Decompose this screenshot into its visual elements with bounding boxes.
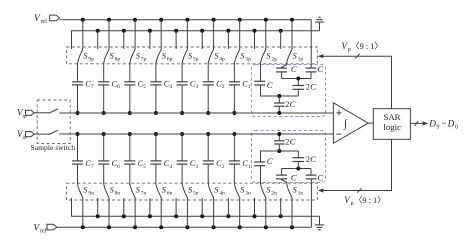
capacitor C3 (N array) (181, 164, 183, 184)
wire node A (N) (282, 168, 311, 170)
wire N top-plate rail (59, 133, 333, 135)
svg-text:Sample switch: Sample switch (31, 143, 76, 152)
svg-text:in: in (22, 135, 27, 141)
svg-text:3: 3 (196, 164, 199, 170)
svg-text:7n: 7n (141, 191, 147, 197)
switch S7p (122, 29, 126, 33)
svg-text:2n: 2n (271, 191, 277, 197)
svg-text:4: 4 (169, 164, 172, 170)
svg-text:3p: 3p (245, 56, 251, 62)
SAR logic block (373, 109, 410, 140)
svg-text:SAR: SAR (383, 112, 400, 122)
comparator U1 (333, 103, 368, 144)
wire Vref elbow to dummy cap N (310, 179, 312, 227)
sample switch box (dashed) (37, 100, 70, 144)
svg-text:2: 2 (222, 164, 225, 170)
wire P top-plate rail (59, 112, 333, 114)
capacitor 2C (N sub top) (278, 144, 280, 151)
svg-text:S: S (188, 186, 192, 195)
svg-text:S: S (240, 186, 244, 195)
switch S6p (148, 29, 152, 33)
svg-text:3: 3 (196, 84, 199, 90)
svg-text:C: C (317, 64, 323, 74)
svg-text:S: S (293, 186, 297, 195)
svg-text:S: S (266, 186, 270, 195)
svg-text:5n: 5n (193, 191, 199, 197)
capacitor 2C (P sub middle) (297, 79, 299, 86)
capacitor C3 (P array) (181, 63, 183, 82)
svg-text:7: 7 (91, 164, 94, 170)
svg-text:〈9 : 1〉: 〈9 : 1〉 (351, 42, 382, 51)
capacitor C4 (P array) (155, 63, 157, 82)
switch array box N (dashed) (67, 183, 318, 200)
capacitor C (N sub, from S2n) (260, 166, 262, 184)
port Vref bottom (47, 224, 57, 230)
svg-text:S: S (293, 51, 297, 60)
switch S3n (226, 214, 230, 218)
svg-text:S: S (83, 51, 87, 60)
svg-text:S: S (240, 51, 244, 60)
capacitor C (N sub, lower-right dummy) (306, 174, 317, 176)
capacitor C5 (N array) (129, 164, 131, 184)
svg-text:1: 1 (248, 84, 251, 90)
svg-text:D: D (428, 120, 436, 130)
port Vip (26, 110, 35, 115)
svg-text:7: 7 (91, 84, 94, 90)
svg-text:5: 5 (143, 84, 146, 90)
svg-text:ip: ip (22, 114, 27, 120)
switch S4p (200, 29, 204, 33)
wire node B (P) (260, 95, 299, 97)
capacitor 2C (N sub middle) (297, 162, 299, 169)
svg-text:2: 2 (222, 84, 225, 90)
switch S1p (279, 29, 283, 33)
svg-text:S: S (110, 51, 114, 60)
capacitor C (P sub, upper-right dummy) (306, 67, 317, 69)
capacitor C2 (N array) (207, 164, 209, 184)
wire S1n to cap (jog) (282, 179, 287, 184)
svg-text:5: 5 (143, 164, 146, 170)
svg-text:~: ~ (442, 118, 447, 128)
capacitor C6 (N array) (103, 164, 105, 184)
switch S9n (81, 225, 85, 229)
ground rail bottom (72, 198, 320, 216)
capacitor C (N sub, lower-left) (276, 174, 287, 176)
svg-text:7p: 7p (141, 56, 147, 62)
wire comparator to SAR (368, 122, 373, 124)
capacitor C (P sub, from S2p) (260, 63, 262, 81)
svg-text:4n: 4n (219, 191, 225, 197)
svg-text:S: S (136, 51, 140, 60)
sub-DAC box P (dashed violet) (251, 65, 325, 117)
capacitor C (P sub, upper-left) (276, 67, 287, 69)
svg-text:S: S (83, 186, 87, 195)
wire Vref elbow to dummy cap P (310, 20, 312, 68)
svg-text:C: C (317, 172, 323, 182)
svg-text:1n: 1n (298, 191, 304, 197)
sub-DAC box N (dashed violet) (251, 130, 325, 182)
svg-text:1: 1 (248, 164, 251, 170)
port Vref top (50, 15, 60, 21)
svg-text:4p: 4p (219, 56, 225, 62)
output bus D9~D0 (410, 122, 426, 124)
svg-text:2p: 2p (271, 56, 277, 62)
switch S5n (174, 214, 178, 218)
svg-text:〈9 : 1〉: 〈9 : 1〉 (354, 196, 385, 205)
svg-text:6: 6 (117, 164, 120, 170)
switch S6n (148, 214, 152, 218)
svg-text:C: C (291, 172, 297, 182)
switch S2n (253, 214, 257, 218)
svg-text:S: S (136, 186, 140, 195)
switch S9p (81, 18, 85, 22)
capacitor C4 (N array) (155, 164, 157, 184)
svg-text:D: D (447, 120, 455, 130)
capacitor 2C (P sub bottom) (278, 96, 280, 103)
capacitor C6 (P array) (103, 63, 105, 82)
svg-text:C: C (310, 154, 316, 164)
bus Vn<9:1> (319, 139, 392, 190)
switch S7n (122, 214, 126, 218)
capacitor C2 (P array) (207, 63, 209, 82)
sample switch P (34, 112, 49, 114)
svg-text:S: S (214, 186, 218, 195)
wire S1p to cap (jog) (282, 63, 287, 68)
svg-text:3n: 3n (245, 191, 251, 197)
capacitor C7 (P array) (77, 63, 79, 82)
wire node A (P) (282, 78, 311, 80)
svg-text:S: S (214, 51, 218, 60)
svg-text:S: S (162, 186, 166, 195)
svg-text:0: 0 (455, 124, 458, 130)
svg-text:logic: logic (383, 122, 401, 132)
switch S3p (226, 29, 230, 33)
svg-text:C: C (267, 80, 273, 90)
ground symbol top (319, 22, 321, 31)
switch S4n (200, 214, 204, 218)
svg-text:1p: 1p (298, 56, 304, 62)
capacitor C1 (P array) (233, 63, 235, 82)
svg-text:9: 9 (437, 124, 440, 130)
svg-text:6n: 6n (167, 191, 173, 197)
svg-text:S: S (266, 51, 270, 60)
wire node B (N) (260, 150, 299, 152)
svg-text:ref: ref (40, 227, 47, 234)
capacitor C5 (P array) (129, 63, 131, 82)
port Vin (26, 132, 35, 137)
switch S5p (174, 29, 178, 33)
wire Vref bottom rail (57, 226, 312, 228)
svg-text:C: C (291, 64, 297, 74)
svg-text:S: S (110, 186, 114, 195)
ground symbol bottom (319, 216, 321, 225)
svg-text:S: S (188, 51, 192, 60)
svg-text:6: 6 (117, 84, 120, 90)
svg-text:C: C (290, 99, 296, 109)
switch S8n (96, 214, 100, 218)
switch S1n (279, 214, 283, 218)
svg-text:8p: 8p (115, 56, 121, 62)
svg-text:9p: 9p (88, 56, 94, 62)
switch array box P (dashed) (67, 47, 318, 64)
wire Vref top rail (60, 19, 312, 21)
switch S2p (253, 29, 257, 33)
svg-text:C: C (267, 156, 273, 166)
svg-text:S: S (162, 51, 166, 60)
capacitor C7 (N array) (77, 164, 79, 184)
switch S8p (96, 29, 100, 33)
svg-text:4: 4 (169, 84, 172, 90)
svg-text:8n: 8n (115, 191, 121, 197)
ground rail top (72, 31, 320, 49)
capacitor C1 (N array) (233, 164, 235, 184)
sample switch N (34, 133, 49, 135)
svg-text:9n: 9n (88, 191, 94, 197)
svg-text:C: C (290, 137, 296, 147)
svg-text:ref: ref (41, 18, 48, 25)
svg-text:6p: 6p (167, 56, 173, 62)
bus Vp<9:1> (319, 56, 392, 108)
svg-text:5p: 5p (193, 56, 199, 62)
svg-text:C: C (310, 82, 316, 92)
